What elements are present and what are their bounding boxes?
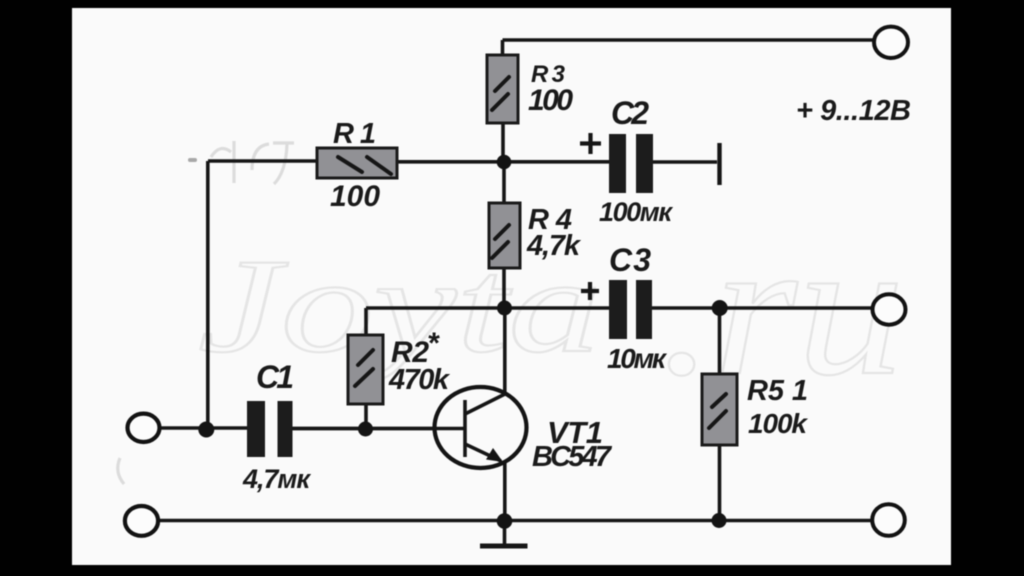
svg-text:100: 100 xyxy=(330,180,380,213)
svg-text:C2: C2 xyxy=(611,95,649,131)
svg-text:4,7k: 4,7k xyxy=(526,230,582,262)
svg-text:100мк: 100мк xyxy=(599,197,673,227)
svg-text:C1: C1 xyxy=(256,359,294,395)
svg-text:100: 100 xyxy=(528,84,573,117)
svg-text:*: * xyxy=(427,327,440,360)
svg-text:C3: C3 xyxy=(609,242,651,278)
svg-text:100k: 100k xyxy=(748,408,808,439)
svg-text:R5 1: R5 1 xyxy=(747,375,808,407)
svg-text:10мк: 10мк xyxy=(607,343,668,374)
svg-text:BC547: BC547 xyxy=(532,441,613,473)
svg-text:4,7мк: 4,7мк xyxy=(242,464,311,494)
svg-text:470k: 470k xyxy=(388,364,451,396)
svg-text:+ 9...12В: + 9...12В xyxy=(796,95,911,127)
